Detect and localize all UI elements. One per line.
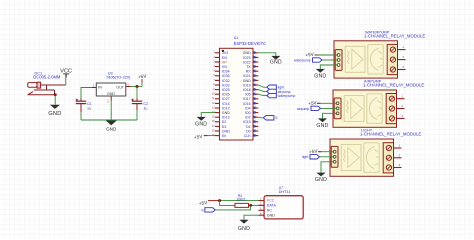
capacitor C1	[76, 98, 87, 112]
pin terminal 3 of LIGHT	[394, 163, 402, 167]
svg-text:DATA: DATA	[267, 204, 277, 208]
svg-text:CLK: CLK	[244, 134, 252, 138]
pin 19 5V of U1	[212, 134, 227, 138]
wire U3 GND to rail	[110, 101, 112, 121]
svg-text:GND: GND	[316, 123, 328, 129]
svg-text:IO18: IO18	[243, 88, 251, 92]
wire U1 GND pin38 to ground	[258, 53, 276, 56]
svg-text:1u: 1u	[143, 106, 147, 110]
svg-text:IO16: IO16	[243, 102, 251, 106]
relay module WATERPUMP terminal block	[387, 44, 397, 74]
svg-text:IO23: IO23	[243, 56, 251, 60]
pin 3 OUT of U3	[126, 83, 131, 87]
pin 34 RX of U1	[246, 70, 259, 74]
svg-text:IO17: IO17	[243, 97, 251, 101]
relay module WATERPUMP optocoupler	[345, 46, 365, 72]
svg-text:IO14: IO14	[222, 102, 230, 106]
pin 22 D1 of U1	[246, 125, 258, 129]
svg-text:NC: NC	[267, 208, 273, 212]
pin 10 IO26 of U1	[212, 93, 230, 97]
relay module LIGHT label	[360, 129, 421, 137]
svg-text:IO33: IO33	[222, 83, 230, 87]
junction dot OUT node	[136, 85, 139, 88]
svg-text:IO32: IO32	[222, 79, 230, 83]
svg-text:1-CHANNEL_RELAY_MODULE: 1-CHANNEL_RELAY_MODULE	[363, 83, 424, 88]
svg-text:IO26: IO26	[222, 93, 230, 97]
svg-text:IO12: IO12	[222, 106, 230, 110]
svg-text:DHT11: DHT11	[279, 190, 291, 194]
svg-text:IO5: IO5	[245, 93, 251, 97]
svg-text:3V3: 3V3	[222, 51, 228, 55]
svg-text:1-CHANNEL_RELAY_MODULE: 1-CHANNEL_RELAY_MODULE	[364, 33, 425, 38]
svg-text:DC005-2.0MM: DC005-2.0MM	[33, 75, 61, 80]
wire R4 to DATA	[249, 204, 259, 206]
svg-text:10KΩ: 10KΩ	[237, 198, 246, 202]
mcu U1 pin1 mark	[222, 50, 224, 52]
ground U1 left	[197, 117, 206, 121]
wire C1 to ground rail	[80, 112, 82, 120]
relay module LIGHT pin header	[331, 146, 338, 167]
pin terminal 3 of WATERPUMP	[398, 65, 406, 69]
ground regulator rail	[106, 121, 117, 132]
wire node to C2	[136, 87, 138, 99]
wire +5V to U7 VCC	[220, 200, 259, 202]
wire U7 GND to ground	[244, 215, 259, 220]
pin 35 TX of U1	[246, 65, 258, 69]
pin 21 D0 of U1	[246, 129, 258, 133]
pin 17 D3 of U1	[212, 125, 226, 129]
svg-text:IO0: IO0	[245, 111, 251, 115]
pin 25 IO0 of U1	[245, 111, 258, 115]
pin 5 IO34 of U1	[213, 70, 229, 74]
wire U1 IO18 to airpump flag	[258, 90, 267, 92]
ground U7	[239, 220, 248, 224]
pin 31 IO19 of U1	[243, 83, 258, 87]
svg-text:GND: GND	[48, 111, 61, 117]
svg-text:VCC: VCC	[267, 199, 275, 203]
svg-text:7805(TO-220): 7805(TO-220)	[106, 75, 131, 80]
svg-text:U1: U1	[234, 36, 239, 40]
svg-text:IO25: IO25	[222, 88, 230, 92]
pin 1 3V3 of U1	[213, 51, 228, 55]
relay module AIRPUMP terminal block	[386, 94, 396, 124]
wire light flag to LIGHT IN	[320, 156, 335, 158]
resistor R4	[235, 203, 249, 207]
svg-text:1u: 1u	[87, 106, 91, 110]
relay module AIRPUMP relay symbol	[367, 94, 383, 124]
wire U1 GND pin14 to ground	[201, 113, 215, 117]
svg-text:IO35: IO35	[222, 74, 230, 78]
pin terminal 2 of WATERPUMP	[398, 55, 406, 59]
pin terminal 3 of AIRPUMP	[397, 114, 405, 118]
net flag airpump	[267, 89, 291, 94]
svg-text:IN: IN	[98, 86, 102, 90]
relay module WATERPUMP pin header	[335, 50, 342, 71]
pin 4 GND of U7	[259, 212, 276, 217]
wire VCC branch to R4	[220, 201, 235, 206]
svg-text:airpump: airpump	[297, 107, 309, 111]
wire U3 IN node	[81, 88, 92, 99]
net flag light at LIGHT	[302, 155, 320, 160]
relay module LIGHT relay symbol	[364, 143, 380, 173]
connector DC1 label	[33, 71, 61, 79]
svg-text:IO15: IO15	[243, 120, 251, 124]
wire LIGHT GND to ground	[321, 162, 334, 173]
ground jack	[50, 105, 60, 109]
pin terminal 2 of AIRPUMP	[397, 104, 405, 108]
pin terminal 1 of WATERPUMP	[398, 45, 406, 49]
resistor R4 value label	[237, 194, 246, 201]
ground U1 right	[271, 56, 280, 60]
svg-text:light: light	[302, 155, 308, 159]
svg-text:GND: GND	[106, 127, 117, 132]
svg-text:IO19: IO19	[243, 83, 251, 87]
capacitor C2	[131, 98, 142, 110]
svg-text:1-CHANNEL_RELAY_MODULE: 1-CHANNEL_RELAY_MODULE	[360, 132, 421, 137]
wire U1 IO2 to S flag	[258, 116, 263, 119]
pin 37 IO23 of U1	[243, 56, 258, 60]
junction dot VCC branch	[218, 199, 221, 202]
pin 3 NC of U7	[259, 207, 273, 212]
pin 2 GND of U3	[107, 96, 111, 103]
svg-text:IO2: IO2	[245, 116, 251, 120]
svg-text:IO21: IO21	[243, 74, 251, 78]
svg-text:GND: GND	[270, 59, 282, 65]
wire +5V to AIRPUMP VCC	[317, 102, 337, 104]
pin terminal 1 of AIRPUMP	[397, 94, 405, 98]
pin 33 IO21 of U1	[243, 74, 258, 78]
wire WATERPUMP GND to ground	[320, 65, 338, 69]
relay module WATERPUMP body	[334, 41, 398, 78]
svg-text:GND: GND	[315, 177, 327, 183]
pin 4 VN of U1	[213, 65, 227, 69]
wire U1 5V pin to +5V	[204, 135, 215, 137]
ground WATERPUMP	[316, 69, 325, 73]
capacitor C1 value label	[87, 102, 92, 110]
pin 26 IO4 of U1	[245, 106, 258, 110]
relay module LIGHT terminal block	[383, 143, 393, 173]
wire airpump flag to AIRPUMP IN	[321, 107, 338, 109]
net flag light	[267, 85, 284, 90]
svg-text:IO22: IO22	[243, 60, 251, 64]
connector DC1 DC005-2.0MM	[28, 82, 66, 95]
svg-text:TX: TX	[246, 65, 251, 69]
pin terminal 2 of LIGHT	[394, 153, 402, 157]
svg-text:GND: GND	[195, 121, 207, 127]
mcu U1 ESP32-DEVKITC body	[220, 48, 254, 140]
wire S flag to DATA node	[215, 205, 250, 210]
sensor U7 DHT11 body	[264, 196, 303, 219]
relay module AIRPUMP optocoupler	[344, 96, 364, 122]
ground LIGHT	[316, 173, 325, 177]
wire jack to VCC	[65, 74, 67, 85]
pin 12 IO14 of U1	[212, 102, 230, 106]
pin 6 IO35 of U1	[213, 74, 229, 78]
pin 1 VCC of U7	[259, 198, 275, 203]
pin 2 EN of U1	[213, 56, 227, 60]
svg-text:IO27: IO27	[222, 97, 230, 101]
junction dot DATA node	[249, 204, 252, 207]
wire +5V to WATERPUMP VCC	[315, 54, 339, 56]
ground AIRPUMP	[318, 118, 327, 122]
pin terminal 1 of LIGHT	[394, 144, 402, 148]
pin 29 IO5 of U1	[245, 93, 258, 97]
pin 9 IO25 of U1	[213, 88, 229, 92]
svg-text:VP: VP	[222, 60, 227, 64]
relay module LIGHT body	[330, 139, 394, 176]
svg-text:OUT: OUT	[116, 86, 124, 90]
pin 38 GND of U1	[243, 51, 259, 55]
svg-text:5V: 5V	[222, 134, 227, 138]
svg-text:GND: GND	[243, 51, 251, 55]
net flag airpump at AIRPUMP	[297, 106, 321, 111]
svg-text:D0: D0	[246, 129, 251, 133]
pin 16 D2 of U1	[212, 120, 226, 124]
mcu U1 label	[234, 36, 267, 46]
relay module AIRPUMP label	[363, 80, 424, 88]
wire +5V to LIGHT VCC	[318, 151, 334, 153]
pin 7 IO32 of U1	[213, 79, 229, 83]
svg-text:GND: GND	[243, 79, 251, 83]
net flag waterpump at WATERPUMP	[294, 58, 322, 63]
svg-text:IO34: IO34	[222, 70, 230, 74]
wire AIRPUMP GND to ground	[323, 113, 338, 118]
net flag waterpump	[267, 93, 296, 98]
power flag VCC	[60, 69, 72, 78]
wire waterpump flag to WATERPUMP IN	[322, 59, 338, 61]
pin 30 IO18 of U1	[243, 88, 258, 92]
svg-text:waterpump: waterpump	[294, 58, 311, 62]
pin 23 IO15 of U1	[243, 120, 258, 124]
svg-text:IO4: IO4	[245, 106, 251, 110]
svg-text:GND: GND	[314, 73, 326, 79]
wire node to +5V	[141, 79, 143, 86]
wire OUT to node	[131, 86, 142, 88]
relay module WATERPUMP relay symbol	[368, 45, 384, 75]
pin 3 VP of U1	[213, 60, 227, 64]
wire ground rail	[81, 119, 137, 121]
pin 14 GND of U1	[212, 111, 230, 115]
pin 13 IO12 of U1	[212, 106, 230, 110]
relay module AIRPUMP pin header	[334, 98, 341, 119]
svg-text:EN: EN	[222, 56, 227, 60]
svg-text:RX: RX	[246, 70, 252, 74]
svg-text:D1: D1	[246, 125, 251, 129]
wire U1 IO19 to light flag	[258, 85, 267, 87]
svg-text:GND: GND	[267, 213, 275, 217]
svg-text:ESP32-DEVKITC: ESP32-DEVKITC	[234, 41, 267, 46]
net flag S at U7	[201, 208, 215, 213]
pin 32 GND of U1	[243, 79, 259, 83]
pin 28 IO17 of U1	[243, 97, 258, 101]
pin 20 CLK of U1	[244, 134, 259, 138]
sensor U7 label	[279, 186, 291, 194]
capacitor C2 value label	[143, 102, 148, 110]
regulator U3 body	[96, 83, 126, 96]
pin 36 IO22 of U1	[243, 60, 258, 64]
svg-text:CMD: CMD	[222, 129, 231, 133]
pin 1 IN of U3	[92, 84, 96, 88]
relay module AIRPUMP body	[333, 90, 397, 127]
wire C2 to rail	[136, 110, 138, 120]
svg-text:VN: VN	[222, 65, 227, 69]
junction dot jack ground	[54, 93, 57, 96]
pin 27 IO16 of U1	[243, 102, 258, 106]
wire U1 IO5 to waterpump flag	[258, 94, 267, 95]
net flag S at U1	[263, 116, 278, 121]
pin 11 IO27 of U1	[212, 97, 229, 101]
relay module LIGHT optocoupler	[341, 145, 361, 171]
svg-text:GND: GND	[107, 92, 115, 96]
pin 8 IO33 of U1	[213, 83, 229, 87]
pin 2 DATA of U7	[259, 203, 277, 208]
svg-text:GND: GND	[238, 226, 250, 232]
pin 18 CMD of U1	[212, 129, 230, 133]
svg-text:D2: D2	[222, 120, 227, 124]
svg-text:GND: GND	[222, 111, 230, 115]
svg-text:IO13: IO13	[222, 116, 230, 120]
pin 24 IO2 of U1	[245, 116, 258, 120]
svg-text:D3: D3	[222, 125, 227, 129]
pin 15 IO13 of U1	[212, 116, 230, 120]
wire jack to GND	[54, 95, 56, 105]
svg-text:waterpump: waterpump	[278, 94, 296, 98]
svg-text:S: S	[201, 208, 204, 212]
regulator U3 label	[106, 72, 131, 80]
relay module WATERPUMP label	[364, 31, 425, 39]
